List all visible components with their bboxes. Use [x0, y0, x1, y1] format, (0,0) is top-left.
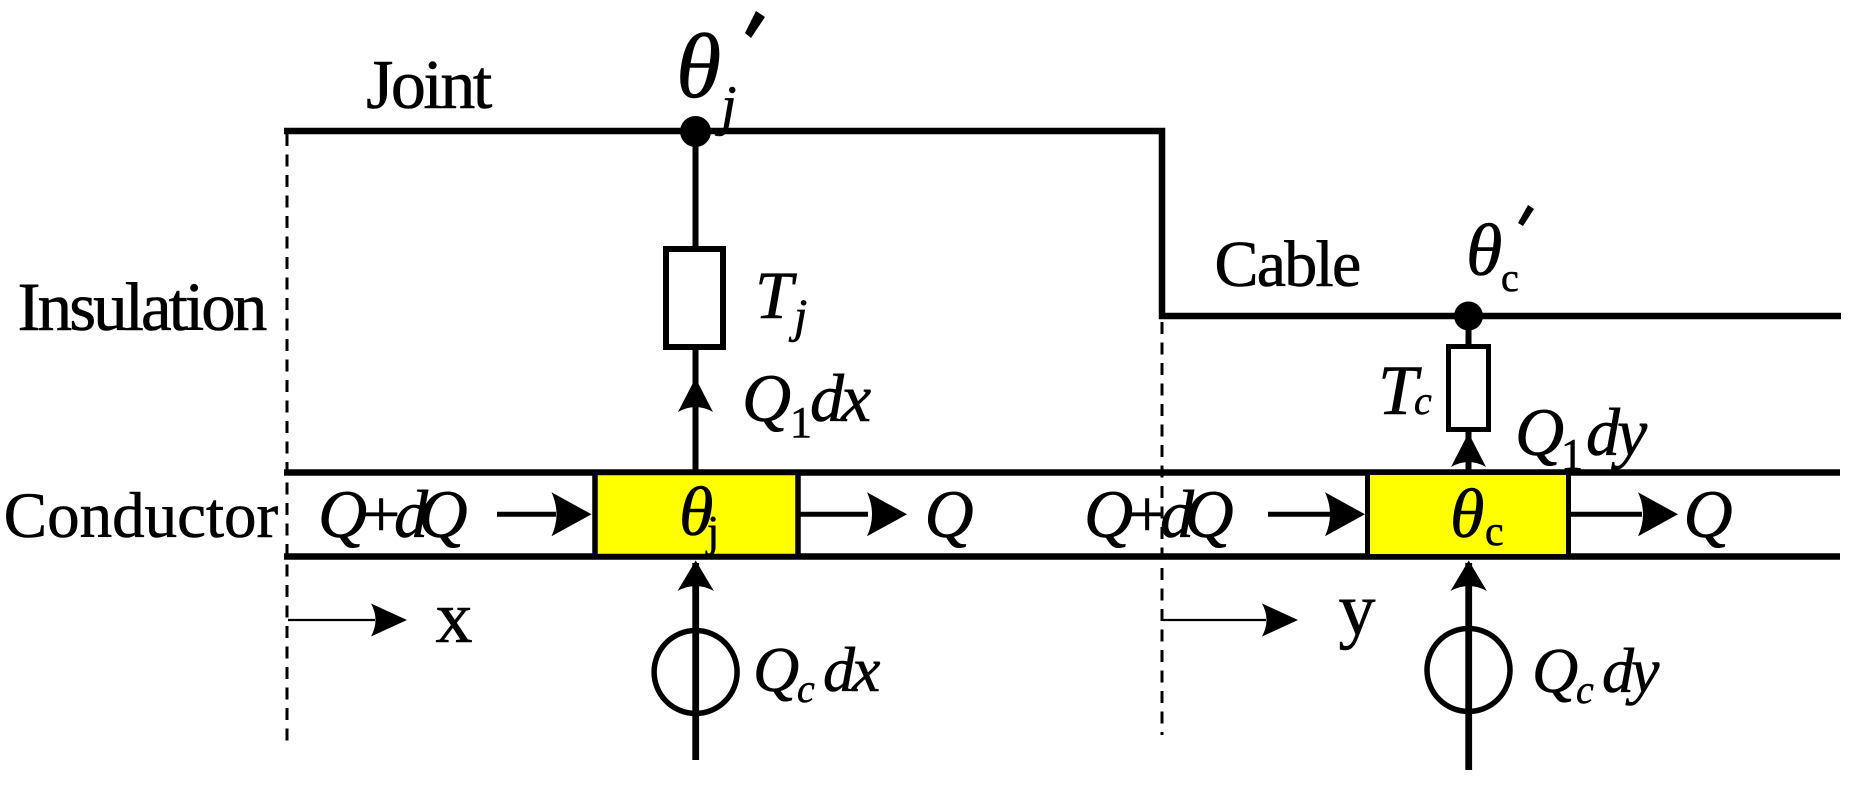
- svg-text:Q: Q: [753, 634, 799, 705]
- svg-text:c: c: [1414, 378, 1432, 423]
- wire joint insulation top rail with step down to cable insulation rail: [284, 131, 1841, 316]
- arrow theta_j out to Q: [800, 512, 868, 517]
- label Qc dx: [753, 634, 880, 711]
- node theta_j yellow cell: [595, 473, 798, 557]
- label theta_j: [679, 474, 719, 556]
- wire resistor Tj to conductor: [693, 350, 699, 473]
- wire conductor bottom line: [284, 553, 1840, 560]
- node theta'_c: [1454, 302, 1483, 331]
- svg-text:c: c: [1485, 509, 1504, 555]
- svg-text:dx: dx: [810, 360, 871, 436]
- wire node theta'_c to resistor Tc: [1466, 316, 1472, 348]
- axis y arrow: [1162, 619, 1266, 621]
- arrowhead Qc dx up: [678, 561, 714, 592]
- node theta_c yellow cell: [1368, 473, 1569, 557]
- svg-text:c: c: [1576, 667, 1594, 712]
- svg-text:Q: Q: [1683, 476, 1732, 552]
- svg-text:T: T: [755, 257, 797, 333]
- wire conductor top line: [284, 469, 1840, 476]
- axis x arrow: [288, 619, 375, 621]
- arrowhead Q1dy up: [1451, 433, 1486, 467]
- dashed boundary right: [1161, 322, 1164, 735]
- resistor Tc: [1449, 347, 1489, 430]
- label theta'_j: [676, 15, 737, 137]
- arrowhead Q1dx up: [678, 378, 713, 412]
- wire heat source Qc dx: [692, 563, 699, 760]
- svg-text:θ: θ: [1450, 476, 1484, 553]
- resistor Tj: [666, 249, 723, 347]
- svg-text:dy: dy: [1586, 394, 1648, 470]
- wire node theta'_j to resistor Tj: [693, 131, 699, 250]
- svg-text:y: y: [1339, 569, 1376, 651]
- svg-text:θ: θ: [676, 15, 721, 117]
- svg-text:Insulation: Insulation: [18, 269, 267, 345]
- prime of theta'_j: [745, 11, 765, 38]
- dashed boundary left: [286, 134, 289, 742]
- svg-text:Q: Q: [1515, 394, 1564, 470]
- label Q1dx: [742, 360, 871, 447]
- label Q1dy: [1515, 394, 1648, 479]
- label Tc: [1378, 352, 1432, 430]
- wire heat source Qc dy: [1465, 563, 1472, 770]
- label theta'_c: [1466, 210, 1519, 300]
- svg-text:j: j: [705, 507, 719, 556]
- source circle Qc dx: [654, 631, 737, 714]
- label Qc dy: [1532, 635, 1660, 712]
- label theta_c: [1450, 476, 1504, 555]
- svg-text:Q+dQ: Q+dQ: [1084, 476, 1232, 552]
- wire resistor Tc to conductor: [1466, 430, 1472, 473]
- source circle Qc dy: [1427, 629, 1510, 712]
- svg-text:Cable: Cable: [1215, 228, 1360, 301]
- svg-text:dx: dx: [823, 634, 880, 705]
- svg-text:Q: Q: [924, 476, 973, 552]
- svg-text:1: 1: [790, 398, 812, 447]
- svg-text:x: x: [436, 577, 473, 659]
- svg-text:Conductor: Conductor: [4, 480, 279, 552]
- svg-text:Q+dQ: Q+dQ: [318, 476, 466, 552]
- node theta'_j: [680, 116, 711, 147]
- svg-text:Q: Q: [1532, 635, 1578, 706]
- svg-text:θ: θ: [1466, 210, 1502, 292]
- svg-text:Joint: Joint: [366, 47, 493, 124]
- svg-text:dy: dy: [1602, 635, 1660, 706]
- arrow theta_c out to Q: [1571, 512, 1642, 517]
- arrow Q+dQ into theta_c: [1268, 512, 1330, 517]
- svg-text:c: c: [1501, 255, 1519, 300]
- svg-text:Q: Q: [742, 360, 791, 436]
- prime of theta'_c: [1518, 205, 1534, 226]
- arrowhead Qc dy up: [1451, 561, 1487, 592]
- arrow Q+dQ into theta_j: [497, 512, 556, 517]
- label Tj: [755, 257, 807, 343]
- svg-text:c: c: [797, 666, 815, 711]
